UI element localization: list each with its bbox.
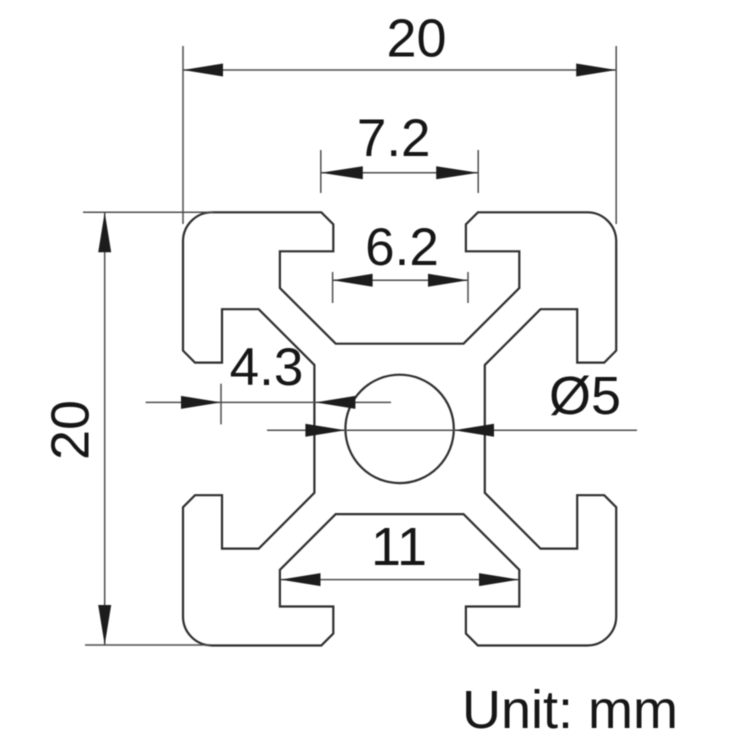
svg-text:Unit: mm: Unit: mm (462, 680, 678, 740)
svg-text:7.2: 7.2 (357, 109, 431, 168)
dimension 20 (top): dimension line (183, 69, 616, 71)
dimension 20 (left): extension line top (83, 211, 213, 213)
dimension 7.2: left arrowhead (321, 166, 363, 179)
dimension 4.3: right arrowhead (points left at wall) (315, 396, 355, 409)
profile outline (2020 extrusion cross-section) (183, 212, 616, 645)
dimension 4.3: left arrowhead (points right at tick) (181, 396, 221, 409)
svg-text:11: 11 (371, 517, 427, 577)
svg-text:6.2: 6.2 (365, 218, 439, 277)
dimension 6.2: left arrowhead (333, 274, 373, 287)
dimension 20 (left): extension line bottom (85, 644, 211, 646)
dimension 7.2: extension tick right (477, 150, 479, 193)
svg-text:20: 20 (41, 400, 101, 460)
dimension 20 (top): extension line right (615, 46, 617, 224)
dimension 11: right arrowhead (479, 573, 519, 586)
dimension 6.2: dimension line (333, 279, 468, 281)
dimension 7.2: dimension line (321, 172, 478, 174)
dimension 20 (left): dimension line (104, 212, 106, 645)
dimension 6.2: right arrowhead (428, 274, 468, 287)
dimension 11: left arrowhead (281, 573, 321, 586)
dimension 20 (top): extension line left (182, 46, 184, 224)
dimension Ø5: right arrowhead (points left at circle) (454, 424, 494, 437)
center hole circle (345, 375, 453, 483)
dimension 20 (top): right arrowhead (576, 64, 616, 77)
dimension 4.3: extension tick (220, 384, 222, 425)
dimension 4.3: dimension line (146, 401, 391, 403)
svg-text:Ø5: Ø5 (549, 366, 621, 426)
dimension 20 (left): top arrowhead (98, 212, 111, 252)
dimension 6.2: extension tick right (467, 272, 469, 303)
svg-text:4.3: 4.3 (230, 338, 304, 397)
dimension 7.2: extension tick left (320, 150, 322, 193)
dimension 11: dimension line (281, 579, 520, 581)
dimension Ø5: dimension line through hole (267, 429, 637, 431)
dimension Ø5: left arrowhead (points right at circle) (305, 424, 345, 437)
dimension 20 (top): left arrowhead (183, 64, 223, 77)
svg-text:20: 20 (386, 9, 446, 69)
dimension 7.2: right arrowhead (436, 166, 478, 179)
dimension 6.2: extension tick left (332, 272, 334, 303)
dimension 20 (left): bottom arrowhead (98, 605, 111, 645)
